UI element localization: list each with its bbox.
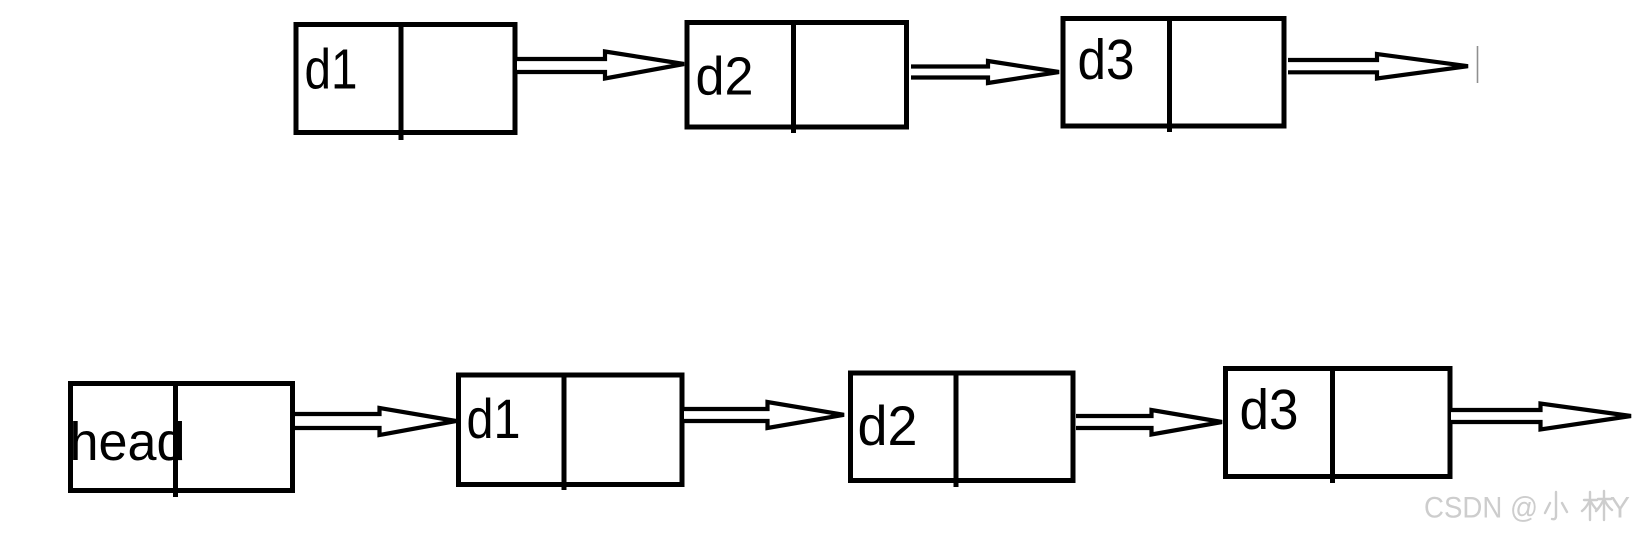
- svg-text:d2: d2: [858, 394, 918, 457]
- node d1 (top row) box: [296, 24, 515, 140]
- svg-text:CSDN @: CSDN @: [1424, 492, 1538, 525]
- svg-text:head: head: [70, 412, 186, 472]
- node d1 (bottom row) box: [459, 374, 683, 490]
- wire arrow d2->d3 (top row): [911, 61, 1059, 83]
- wire arrow d2->d3 (bottom row): [1076, 410, 1222, 435]
- svg-text:d1: d1: [467, 387, 521, 450]
- svg-text:Y: Y: [1610, 492, 1630, 525]
- node d2 (bottom row) box: [851, 372, 1074, 487]
- svg-text:d2: d2: [696, 47, 754, 107]
- node head (bottom row) box: [71, 383, 293, 497]
- node d2 (top row) box: [687, 22, 907, 133]
- wire arrow head->d1 (bottom row): [295, 408, 456, 435]
- wire arrow d3->null (bottom row trailing): [1451, 404, 1631, 430]
- watermark glyph 林: [1582, 491, 1612, 520]
- wire arrow d1->d2 (bottom row): [684, 402, 844, 428]
- watermark glyph 小: [1545, 492, 1567, 519]
- svg-text:d3: d3: [1240, 378, 1299, 442]
- wire arrow d3->null (top row trailing): [1288, 54, 1468, 79]
- node d3 (bottom row) box: [1226, 368, 1451, 483]
- svg-text:d3: d3: [1078, 28, 1135, 92]
- text cursor caret (top right): [1477, 46, 1479, 83]
- wire arrow d1->d2 (top row): [517, 52, 684, 79]
- node d3 (top row) box: [1063, 18, 1284, 132]
- svg-text:d1: d1: [305, 38, 358, 102]
